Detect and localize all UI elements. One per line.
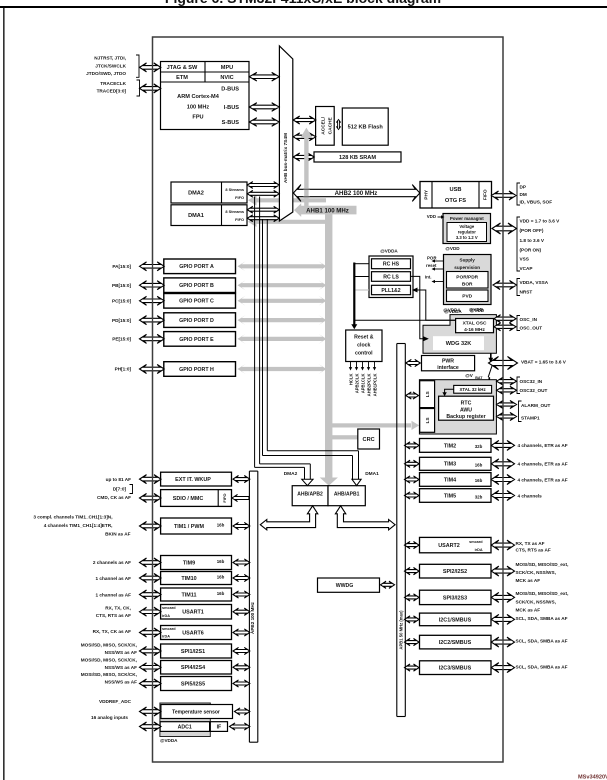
svg-text:BOR: BOR [462,282,473,288]
svg-text:1 channel as AF: 1 channel as AF [95,593,131,598]
svg-text:RC LS: RC LS [383,274,399,280]
svg-text:MOSI/SD, MISO, SCK/CK,: MOSI/SD, MISO, SCK/CK, [81,672,137,677]
svg-text:OSC_IN: OSC_IN [520,317,538,322]
svg-text:16b: 16b [217,522,225,527]
svg-text:SCK/CK, NSS/WS,: SCK/CK, NSS/WS, [516,599,556,604]
svg-text:VCAP: VCAP [520,266,533,271]
svg-text:TRACED[3:0]: TRACED[3:0] [97,88,127,93]
wire: XTAL OSC to PLL input [418,290,456,320]
svg-text:EXT IT. WKUP: EXT IT. WKUP [175,477,211,483]
svg-text:TIM5: TIM5 [444,493,456,499]
block: watchdog clock domain (grey) [423,315,496,354]
wire: bus-matrix to ACCEL arrow 2 [293,133,316,141]
block: Temperature sensor [161,705,233,719]
svg-text:FIFO: FIFO [483,189,489,200]
svg-text:GPIO PORT B: GPIO PORT B [179,283,214,289]
wire: TIM11 to APB2 bus arrow [233,591,250,598]
svg-text:SCL, SDA, SMBA as AF: SCL, SDA, SMBA as AF [516,639,568,644]
page frame left line [3,8,4,780]
svg-text:APB2CLK: APB2CLK [354,374,359,394]
wire: grey AHB1 branch to GPIO port D [238,315,327,325]
svg-text:ALARM_OUT: ALARM_OUT [521,403,551,408]
block: 512 KB Flash [342,108,388,145]
wire: USART1 to APB2 bus arrow [233,608,250,615]
wire: ADC1 pin arrow [140,722,162,731]
svg-text:MOSI/SD, MISO, SCK/CK,: MOSI/SD, MISO, SCK/CK, [81,658,137,663]
svg-text:control: control [355,350,373,356]
wire: APB1 bus to USART2 arrow [405,542,420,549]
wire: clock tree feed (RC/PLL to reset-clock control) [353,263,355,326]
wire: XTAL OSC to reset-clock control [354,319,455,321]
wire: temperature sensor to APB2 bus arrow [235,708,250,715]
svg-text:NJTRST, JTDI,: NJTRST, JTDI, [94,56,126,61]
wire: SPI3/I2S3 pin arrow [491,592,514,602]
svg-text:OSC32_OUT: OSC32_OUT [520,388,548,393]
wire: USART6 pin arrow [140,628,162,637]
wire: DMA1 to bus-matrix arrow 2 [247,215,279,222]
svg-text:I2C3/SMBUS: I2C3/SMBUS [439,666,472,672]
wire: DMA1 path arrowhead into bridge [352,479,361,485]
svg-text:reset: reset [426,263,437,268]
wire: USART1 pin arrow [140,607,162,616]
svg-text:3 compl. channels TIM1_CH1[1:3: 3 compl. channels TIM1_CH1[1:3]N, [33,515,112,520]
wire: STAMP1 pin arrow [497,413,517,421]
svg-text:GPIO PORT D: GPIO PORT D [179,318,214,324]
svg-text:NSS/WS as AF: NSS/WS as AF [105,680,138,685]
wire: grey AHB1 branch to GPIO port C [238,296,327,306]
wire: EXT IT. WKUP to APB2 bus arrow [233,476,250,483]
svg-text:up to 81 AF: up to 81 AF [106,477,131,482]
svg-text:8 Streams: 8 Streams [225,187,244,192]
wire: TIM11 pin arrow [140,590,162,599]
svg-text:ACCEL/: ACCEL/ [320,116,326,135]
svg-text:ETM: ETM [176,75,188,81]
svg-text:(POR ON): (POR ON) [520,247,542,252]
svg-text:irDA: irDA [162,614,170,618]
svg-text:DM: DM [520,192,527,197]
block: USART1 [161,605,232,620]
wire: OSC32_OUT pin arrow [497,386,517,394]
svg-text:irDA: irDA [162,635,170,639]
wire: SPI5/I2S5 pin arrow [140,679,162,688]
svg-text:MCK as AF: MCK as AF [516,607,541,612]
svg-text:@VDD: @VDD [445,246,460,251]
block: RC oscillators and PLL group [369,256,413,298]
svg-text:JTDO/SWD, JTDO: JTDO/SWD, JTDO [86,71,126,76]
svg-text:JTCK/SWCLK: JTCK/SWCLK [95,63,126,68]
block: I2C1/SMBUS [420,613,492,626]
wire: grey AHB1 branch to DMA2 [248,195,326,205]
wire: USART6 to APB2 bus arrow [233,629,250,636]
svg-text:OSC_OUT: OSC_OUT [520,325,543,330]
svg-text:TIM9: TIM9 [183,560,195,566]
wire: APB1 bus to TIM5 arrow [405,492,420,499]
svg-text:TIM1 / PWM: TIM1 / PWM [174,524,204,530]
svg-text:MOSI/SD, MISO, SCK/CK,: MOSI/SD, MISO, SCK/CK, [81,643,137,648]
block: TIM2 [420,439,492,453]
wire: TIM4 pin arrow [491,475,514,485]
wire: APB1 bus to SPI2/I2S2 arrow [405,568,420,575]
block: ACCEL/CACHE [316,107,335,146]
svg-text:@VDDA: @VDDA [444,309,462,314]
wire: APB1 bus to LS arrow [406,392,419,399]
svg-text:PLL1&2: PLL1&2 [381,288,400,294]
wire: VBAT switch [490,353,492,359]
svg-text:DMA2: DMA2 [284,471,298,477]
svg-text:DMA1: DMA1 [365,471,379,477]
block: Reset and clock control [346,330,382,362]
svg-text:I2C1/SMBUS: I2C1/SMBUS [439,617,472,623]
wire: SPI1/I2S1 pin arrow [140,647,162,656]
wire: AHB/APB2 bridge to APB2 bus elbow arrow [260,506,318,530]
bus: AHB bus-matrix 7S4M [279,46,292,221]
wire: I2C2/SMBUS pin arrow [491,637,514,647]
block: ADC IF [210,722,227,732]
svg-text:TIM4: TIM4 [444,477,456,483]
svg-text:smcard: smcard [162,627,176,631]
svg-text:D[7:0]: D[7:0] [113,486,127,491]
svg-text:AHB2PCLK: AHB2PCLK [366,374,371,397]
svg-text:AHB/APB2: AHB/APB2 [297,491,323,497]
svg-text:16b: 16b [217,574,225,579]
block: EXT IT. WKUP [161,472,232,486]
svg-text:100 MHz: 100 MHz [187,105,210,111]
svg-text:GPIO PORT A: GPIO PORT A [179,264,214,270]
svg-text:Backup register: Backup register [446,414,485,420]
svg-text:8 Streams: 8 Streams [225,209,244,214]
svg-text:WDG 32K: WDG 32K [446,341,472,347]
svg-text:AHB/APB1: AHB/APB1 [334,491,360,497]
block: TIM4 [420,473,492,487]
svg-text:2 channels as AF: 2 channels as AF [93,560,131,565]
wire: USART2 pin arrow [491,540,514,550]
svg-text:4 channels TIM1_CH1[1:4]ETR,: 4 channels TIM1_CH1[1:4]ETR, [44,523,113,528]
svg-text:APB2 100 MHz: APB2 100 MHz [250,601,255,634]
svg-text:USART2: USART2 [438,543,460,549]
svg-text:AHB bus-matrix 7S4M: AHB bus-matrix 7S4M [283,133,289,183]
wire: AHB1 grey bus arrowhead into AHB/APB bridges [320,478,338,486]
block: TIM5 [420,489,492,503]
block: supply supervision [444,255,492,305]
svg-text:MOSI/SD, MISO/SD_ext,: MOSI/SD, MISO/SD_ext, [516,562,569,567]
svg-text:4 channels, ETR as AF: 4 channels, ETR as AF [518,462,568,467]
wire: TIM1 / PWM to APB2 bus arrow [233,522,250,529]
wire: GPIO port A pin arrow [140,262,165,271]
wire: SDIO / MMC to APB2 bus arrow [232,494,249,501]
wire: SPI5/I2S5 to APB2 bus arrow [233,680,250,687]
svg-text:32b: 32b [475,444,483,449]
block: RTC backup domain (grey) [419,380,496,434]
svg-text:PHY: PHY [424,189,430,200]
block: SPI1/I2S1 [161,644,232,658]
block: ADC grey domain backdrop [160,703,210,737]
svg-text:POR: POR [427,256,437,261]
svg-text:GPIO PORT H: GPIO PORT H [179,367,214,373]
svg-text:BKIN as AF: BKIN as AF [105,532,130,537]
block: GPIO PORT A [164,259,236,274]
block: SPI3/I2S3 [420,590,492,604]
svg-text:CACHE: CACHE [327,116,333,134]
wire: I2C1/SMBUS pin arrow [491,614,514,624]
block: AHB/APB1 bridge [328,486,365,506]
svg-text:Temperature sensor: Temperature sensor [172,709,220,715]
wire: APB1 bus to I2C1/SMBUS arrow [405,616,420,623]
svg-text:USART1: USART1 [182,610,204,616]
block: WDG 32K [433,336,484,350]
svg-text:OSC32_IN: OSC32_IN [520,379,543,384]
svg-text:3.3 to 1.2 V: 3.3 to 1.2 V [456,235,478,240]
block: I2C3/SMBUS [420,661,492,675]
svg-text:VDD: VDD [427,214,436,219]
block: TIM10 [161,572,232,585]
block: GPIO PORT B [164,278,236,293]
wire: grey AHB1 branch to GPIO port B [238,280,327,290]
svg-text:RX, TX as AF: RX, TX as AF [516,541,545,546]
svg-text:IF: IF [217,724,222,730]
wire: WWDG to APB1 bus arrow [381,581,395,588]
block: power management / voltage regulator [443,214,491,244]
wire: grey AHB1 branch to RTC domain LS box [331,423,411,427]
block: SDIO / MMC [161,490,232,507]
svg-text:PD[15:0]: PD[15:0] [112,318,131,323]
svg-text:SCK/CK, NSS/WS,: SCK/CK, NSS/WS, [516,570,556,575]
wire: bus-matrix to ACCEL arrow 1 [293,116,316,124]
svg-text:@V: @V [465,373,473,378]
svg-text:S-BUS: S-BUS [222,120,240,126]
svg-text:D-BUS: D-BUS [221,87,239,93]
svg-text:SCL, SDA, SMBA as AF: SCL, SDA, SMBA as AF [516,616,568,621]
svg-text:CMD, CK as AF: CMD, CK as AF [97,495,131,500]
svg-text:NRST: NRST [520,289,533,294]
wire: DMA2 white bus path [254,197,256,468]
svg-text:4 channels, ETR as AF: 4 channels, ETR as AF [518,443,568,448]
wire: GPIO port C pin arrow [140,296,165,305]
svg-text:@VDDA: @VDDA [160,738,178,743]
wire: OSC_OUT pin arrow [494,323,516,331]
bus: APB1 bus [396,344,398,717]
svg-text:AWU: AWU [460,407,472,413]
wire: ADC IF to APB2 bus arrow [230,723,250,730]
svg-text:RTC: RTC [461,400,472,406]
wire: SPI1/I2S1 to APB2 bus arrow [233,647,250,654]
wire: grey stub up from AHB1 bus toward bus-matrix/cache arrows [304,137,308,208]
wire: AHB1 100 MHz grey bus arrow into bus matrix [294,203,357,217]
wire: ALARM_OUT pin arrow [497,401,517,409]
svg-text:PVD: PVD [462,293,472,299]
svg-text:1 channel as AF: 1 channel as AF [95,576,131,581]
block: 128 KB SRAM [314,152,401,162]
svg-text:clock: clock [357,342,370,348]
svg-text:CTS, RTS as AF: CTS, RTS as AF [516,548,551,553]
svg-text:SPI2/I2S2: SPI2/I2S2 [443,569,467,575]
svg-text:DP: DP [520,184,527,189]
svg-text:4 channels, ETR as AF: 4 channels, ETR as AF [518,477,568,482]
svg-text:irDA: irDA [475,548,483,552]
svg-text:DMA1: DMA1 [188,213,204,219]
wire: temperature sensor pin arrow [140,707,162,716]
wire: grey AHB1 branch to GPIO port E [238,334,327,344]
block: USART2 [420,537,492,552]
svg-text:NSS/WS as AF: NSS/WS as AF [105,665,138,670]
wire: APB1 bus to PWR interface arrow [406,359,421,366]
wire: supply supervision pin arrow [493,281,517,290]
wire: AHB1 grey vertical bus trunk [325,206,332,478]
wire: APB1 bus to I2C3/SMBUS arrow [405,664,420,671]
block: ARM Cortex-M4 CPU box [161,62,250,130]
svg-text:Power managmt: Power managmt [450,216,484,221]
svg-text:PE[15:0]: PE[15:0] [112,337,131,342]
block: SPI5/I2S5 [161,677,232,691]
wire: VBAT pin arrow [489,357,518,370]
svg-text:regulator: regulator [458,230,477,235]
wire: GPIO port E pin arrow [140,334,165,343]
wire: I2C3/SMBUS pin arrow [491,663,514,673]
svg-text:VBAT = 1.65 to 3.6 V: VBAT = 1.65 to 3.6 V [521,360,567,365]
block: USB OTG FS [420,182,492,209]
wire: OSC32_IN pin arrow [497,377,517,385]
wire: SDIO / MMC pin arrow [140,494,162,503]
wire: TIM9 pin arrow [140,558,162,567]
svg-text:NVIC: NVIC [220,75,233,81]
svg-text:LS: LS [425,391,430,397]
svg-text:FIFO: FIFO [222,493,227,502]
wire: TIM10 to APB2 bus arrow [233,574,250,581]
block: XTAL OSC 4-16 MHz [456,319,494,333]
wire: VDD pin arrow [492,223,517,234]
svg-text:interface: interface [437,365,459,371]
svg-text:512 KB Flash: 512 KB Flash [348,125,384,131]
node: diagram outer box [153,37,504,762]
svg-text:POR/PDR: POR/PDR [456,275,478,281]
block: ADC1 [160,722,210,732]
block: TIM1 / PWM [161,518,232,534]
wire: USB pin arrow [492,191,517,200]
svg-text:APB1 50 MHz (max): APB1 50 MHz (max) [399,610,404,650]
svg-text:Voltage: Voltage [459,224,474,229]
wire: I-BUS to bus-matrix arrow [249,103,279,112]
svg-text:PC[15:0]: PC[15:0] [112,299,131,304]
block: DMA1 [171,205,247,226]
svg-text:CRC: CRC [363,437,375,443]
wire: OSC_IN pin arrow [494,315,516,323]
block: RTC AWU backup registers [439,396,494,420]
wire: TRACE arrow [140,84,161,93]
svg-text:OTG FS: OTG FS [445,198,466,204]
svg-text:SCL, SDA, SMBA as AF: SCL, SDA, SMBA as AF [516,664,568,669]
svg-text:NSS/WS as AF: NSS/WS as AF [105,650,138,655]
svg-text:USB: USB [449,187,461,193]
svg-text:DMA2: DMA2 [188,191,204,197]
svg-text:GPIO PORT E: GPIO PORT E [179,337,214,343]
svg-text:SPI1/I2S1: SPI1/I2S1 [181,649,205,655]
svg-text:APB1CLK: APB1CLK [360,374,365,394]
block: AHB/APB2 bridge [292,486,328,506]
svg-text:CTS, RTS as AF: CTS, RTS as AF [96,613,131,618]
svg-text:RX, TX, CK as AF: RX, TX, CK as AF [93,629,132,634]
svg-text:4 channels: 4 channels [518,493,543,498]
svg-text:SPI3/I2S3: SPI3/I2S3 [443,595,467,601]
svg-text:TIM10: TIM10 [181,576,196,582]
svg-text:TRACECLK: TRACECLK [100,81,126,86]
wire: grey AHB1 branch to GPIO port H [238,364,327,374]
block: USART6 [161,626,232,640]
wire: bus-matrix to SRAM arrow [293,153,314,161]
block: SPI2/I2S2 [420,564,492,578]
svg-text:smcard: smcard [469,540,483,544]
svg-text:ARM Cortex-M4: ARM Cortex-M4 [177,94,220,100]
svg-text:XTAL OSC: XTAL OSC [463,320,487,326]
svg-text:GPIO PORT C: GPIO PORT C [179,299,214,305]
wire: APB1 bus to I2C2/SMBUS arrow [405,639,420,646]
svg-text:MPU: MPU [221,65,233,71]
block: TIM9 [161,556,232,570]
svg-text:16 analog inputs: 16 analog inputs [91,715,128,720]
svg-text:RX, TX, CK,: RX, TX, CK, [105,606,131,611]
wire: DMA2 to bus-matrix arrow 2 [247,190,279,197]
svg-text:BAT: BAT [475,376,483,380]
block: I2C2/SMBUS [420,635,492,649]
bus: APB2 bus [248,471,250,742]
svg-text:TIM2: TIM2 [444,443,456,449]
wire: TIM5 pin arrow [491,491,514,501]
wire: GPIO port H pin arrow [140,365,165,374]
wire: TIM1 / PWM pin arrow [140,522,162,531]
svg-text:AHB2 100 MHz: AHB2 100 MHz [335,190,378,197]
svg-text:MSv34920V1: MSv34920V1 [578,775,607,780]
block: DMA2 [171,182,247,203]
wire: NVIC to bus-matrix arrow [249,72,279,81]
svg-text:HCLK: HCLK [348,374,353,386]
svg-text:32b: 32b [475,494,483,499]
svg-text:AHB1PCLK: AHB1PCLK [372,374,377,397]
wire: cache-flash link symbol [336,120,340,130]
svg-text:16b: 16b [475,478,483,483]
wire: TIM9 to APB2 bus arrow [233,559,250,566]
svg-text:MCK as AF: MCK as AF [516,578,541,583]
block: GPIO PORT D [164,313,236,328]
block: GPIO PORT H [164,362,236,377]
node: diagram border overlay [153,37,504,762]
block: LS upper box [420,381,435,408]
svg-text:VSS: VSS [520,256,529,261]
wire: DMA2 path arrowhead into bridge [302,479,313,485]
wire: GPIO port B pin arrow [140,281,165,290]
svg-text:FIFO: FIFO [235,217,244,222]
svg-text:SDIO / MMC: SDIO / MMC [173,496,204,502]
svg-text:JTAG & SW: JTAG & SW [167,65,198,71]
block: TIM11 [161,588,232,601]
svg-text:@VDDA: @VDDA [380,248,398,253]
wire: TIM2 pin arrow [491,440,514,450]
svg-text:Reset &: Reset & [354,334,374,340]
svg-text:FIFO: FIFO [235,195,244,200]
wire: grey AHB1 branch to CRC [331,435,358,439]
wire: APB1 bus to SPI3/I2S3 arrow [405,594,420,601]
wire: AHB2 100 MHz arrow [293,185,419,202]
svg-text:STAMP1: STAMP1 [521,416,540,421]
wire: SPI4/I2S4 pin arrow [140,663,162,672]
svg-text:XTAL 32 kHz: XTAL 32 kHz [459,387,486,392]
rule under title [0,6,607,8]
svg-text:(POR OFF): (POR OFF) [520,228,544,233]
wire: SPI2/I2S2 pin arrow [491,566,514,576]
block: CRC [358,429,380,449]
block: LS lower box [420,409,435,433]
wire: DMA1 to bus-matrix arrow 1 [247,206,279,213]
svg-text:@VDD: @VDD [470,308,485,313]
block: GPIO PORT E [164,332,236,347]
svg-text:AHB1 100 MHz: AHB1 100 MHz [306,207,349,214]
